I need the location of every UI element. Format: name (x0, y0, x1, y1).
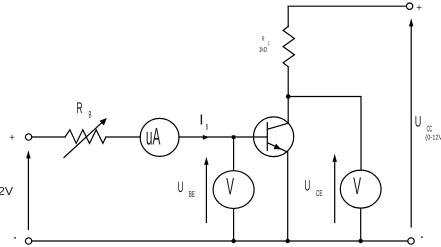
wire: RC to top rail (287, 6, 289, 26)
wire top rail (288, 5, 406, 7)
wire: V1 to bottom rail (233, 209, 235, 241)
node collector junction (286, 94, 291, 99)
terminal right-bottom (408, 238, 414, 244)
transistor Q1 collector stroke (268, 123, 288, 129)
wire: RB to uA meter (106, 136, 141, 138)
wire: UBE arrow line (205, 160, 207, 223)
resistor R2 (RC 1k) (283, 27, 294, 67)
svg-text:B: B (89, 109, 92, 119)
node V1 bottom (231, 239, 235, 243)
transistor Q1 emitter arrowhead (274, 144, 282, 150)
op-amp U1 (microammeter uA) (140, 118, 179, 156)
svg-text:B: B (206, 122, 208, 131)
svg-text:V: V (353, 173, 361, 200)
wire: uA meter to transistor base (179, 136, 267, 138)
terminal left-top (+) (25, 134, 31, 140)
transistor Q1 base bar (266, 123, 268, 151)
svg-text:+: + (9, 133, 15, 144)
node emitter bottom (286, 239, 290, 243)
transistor Q1 circle (254, 117, 294, 157)
wire: UCC arrow line (410, 22, 412, 227)
voltmeter V1 (UBE) (213, 171, 254, 209)
node minus dot right (421, 236, 423, 238)
terminal left-bottom (25, 238, 31, 244)
arrowhead IB on wire (203, 135, 209, 140)
arrowhead UCE (333, 154, 337, 162)
arrowhead rheostat R1 (100, 118, 107, 126)
arrowhead UBE (204, 157, 208, 165)
svg-text:2V: 2V (0, 186, 13, 198)
svg-text:+: + (416, 3, 422, 14)
wire: collector node to V2 branch (291, 97, 362, 170)
wire: collector node to RC (287, 67, 289, 97)
wire: collector up to node (287, 97, 289, 124)
wire: emitter down to bottom rail (287, 152, 289, 241)
svg-text:(0-12V): (0-12V) (425, 133, 441, 141)
svg-text:R: R (76, 100, 82, 117)
wire: base node down to voltmeter V1 (233, 137, 235, 170)
rheostat arrow of R1 (64, 122, 103, 158)
svg-text:BE: BE (189, 189, 195, 199)
svg-text:U: U (415, 113, 422, 130)
wire: 2V source arrow line (27, 154, 29, 230)
arrowhead 2V (26, 150, 30, 158)
wire: UCE arrow line (334, 157, 336, 223)
node V2 bottom (359, 239, 363, 243)
wire: left terminal to RB (32, 136, 65, 138)
svg-text:R: R (262, 36, 265, 43)
svg-text:I: I (200, 113, 203, 129)
transistor Q1 emitter stroke (268, 143, 287, 152)
arrowhead UCC (409, 18, 413, 26)
wire: V2 to bottom rail (360, 209, 362, 241)
terminal right-top (+) (406, 3, 412, 9)
wire bottom rail (32, 240, 408, 242)
svg-text:CE: CE (316, 188, 323, 198)
svg-text:V: V (226, 174, 234, 201)
svg-text:CC: CC (427, 123, 433, 133)
svg-text:1kΩ: 1kΩ (259, 47, 267, 54)
svg-text:U: U (178, 179, 184, 196)
resistor R1 (RB rheostat) (65, 130, 106, 144)
voltmeter V2 (UCE) (340, 170, 381, 208)
svg-text:C: C (268, 41, 270, 47)
svg-text:U: U (305, 177, 311, 194)
node minus dot left (14, 237, 16, 239)
node base junction (232, 135, 236, 139)
svg-text:uA: uA (146, 124, 161, 151)
